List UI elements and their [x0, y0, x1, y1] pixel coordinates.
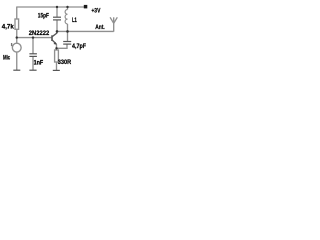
svg-text:2N2222: 2N2222	[29, 30, 50, 37]
svg-text:L1: L1	[72, 17, 77, 24]
svg-text:1nF: 1nF	[34, 60, 44, 67]
svg-text:330R: 330R	[58, 59, 72, 66]
svg-text:4,7k: 4,7k	[2, 23, 14, 30]
svg-text:Mic: Mic	[3, 55, 11, 62]
svg-text:4,7pF: 4,7pF	[72, 43, 86, 50]
svg-text:Ant.: Ant.	[95, 24, 105, 31]
svg-text:+3V: +3V	[91, 7, 100, 14]
svg-text:15pF: 15pF	[38, 13, 49, 20]
